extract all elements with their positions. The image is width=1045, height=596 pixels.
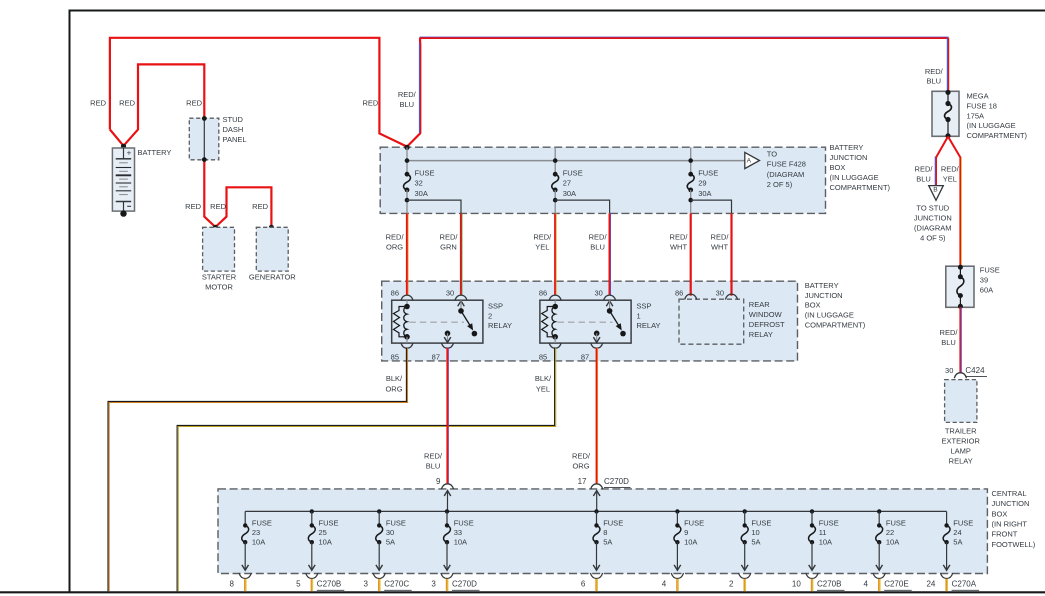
svg-text:FUSE 18: FUSE 18 [967,102,997,111]
relay SSP 1 box [540,300,631,343]
node fuse 27 output branch [553,198,558,203]
node mega fuse input [945,90,950,95]
CJB fuse 33 column [445,509,449,513]
svg-text:85: 85 [391,352,399,361]
svg-text:BLK/: BLK/ [386,374,403,383]
svg-text:30: 30 [446,288,454,297]
svg-text:JUNCTION: JUNCTION [830,153,868,162]
CJB fuse 22 column [877,509,881,513]
relay pin 86 connector arc [401,295,413,301]
wire RED/GRN to SSP2 relay pin 30 [460,213,462,295]
defrost relay pin 86 arc [685,294,697,300]
wire RED battery right branch to stud dash panel [124,64,205,145]
node battery junction box feed [404,145,409,150]
svg-text:ORG: ORG [386,242,403,251]
CJB output pin 8 connector arc [239,573,251,579]
CJB entry pin 9 arrow [444,491,451,496]
svg-text:FUSE: FUSE [319,518,339,527]
svg-text:22: 22 [886,528,894,537]
fuse 27 feed line [554,147,556,174]
svg-text:YEL: YEL [536,384,550,393]
node stud top [202,116,207,121]
CJB entry pin 9 arc [441,484,453,490]
stud dash panel box [189,118,219,160]
svg-text:3: 3 [431,580,436,589]
relay pin 85 connector arc [549,343,561,349]
svg-text:RELAY: RELAY [749,330,773,339]
svg-text:BLU: BLU [941,338,956,347]
wire RED/YEL fuse27 to SSP1 relay pin 86 [554,213,556,295]
relay switch stationary contact [620,331,626,337]
svg-text:10A: 10A [252,538,265,547]
svg-text:30: 30 [594,288,602,297]
svg-text:RED/: RED/ [915,164,934,173]
fuse 25 output line and exit arrow [311,542,313,569]
triangle connector A to fuse F428 [745,152,760,168]
svg-text:C270C: C270C [384,580,409,589]
svg-text:4: 4 [864,580,869,589]
CJB fuse 8 column [594,509,598,513]
svg-text:RED/: RED/ [940,328,959,337]
wire RED battery V left diagonal [110,130,124,146]
node bus junction fuse 29 [688,158,693,163]
svg-text:FUSE F428: FUSE F428 [767,160,806,169]
svg-text:ORG: ORG [385,384,402,393]
svg-text:RED: RED [186,98,202,107]
fuse 29 30A [687,174,694,190]
svg-text:23: 23 [252,528,260,537]
svg-text:FUSE: FUSE [980,266,1000,275]
svg-text:RED/: RED/ [386,232,405,241]
wire RED/YEL mega fuse to fuse 39 [948,137,960,266]
svg-text:BATTERY: BATTERY [138,148,172,157]
svg-text:TRAILER: TRAILER [945,427,977,436]
branch wire to pin 30 column x=609.6 [555,200,609,213]
relay switch common contact [458,308,464,314]
fuse 23 10A [242,525,249,542]
svg-text:8: 8 [230,580,235,589]
svg-text:FUSE: FUSE [819,518,839,527]
svg-text:4: 4 [662,580,667,589]
CJB output pin 2 connector arc [739,573,751,579]
svg-text:87: 87 [581,352,589,361]
wire output pin 8 [244,579,246,591]
svg-text:3: 3 [364,580,369,589]
battery negative terminal [116,201,132,203]
svg-text:C270E: C270E [884,580,908,589]
svg-text:27: 27 [563,179,571,188]
wire output pin 10 [811,579,813,591]
svg-text:RED/: RED/ [572,451,591,460]
relay pin 86 internal line [554,300,556,306]
svg-text:SSP: SSP [488,301,503,310]
fuse 30 output line and exit arrow [378,542,380,569]
wire RED/BLU junction box V to mega fuse 18 [407,38,420,147]
CJB fuse 30 column [377,509,381,513]
svg-text:24: 24 [926,580,935,589]
svg-text:RED/: RED/ [589,232,608,241]
svg-text:CENTRAL: CENTRAL [992,489,1027,498]
fuse 24 5A [943,525,950,542]
svg-text:GRN: GRN [440,242,457,251]
stud dash panel stud line [203,118,205,160]
svg-text:RELAY: RELAY [949,457,973,466]
relay mechanical link line [558,321,613,323]
svg-text:RED/: RED/ [424,451,443,460]
svg-text:ORG: ORG [572,462,589,471]
svg-text:BLU: BLU [927,77,942,86]
svg-text:10A: 10A [319,538,332,547]
svg-text:BLU: BLU [400,100,415,109]
svg-text:C270B: C270B [317,580,341,589]
CJB fuse 23 column [244,511,246,525]
wire RED battery to top rail [110,38,407,147]
svg-text:GENERATOR: GENERATOR [249,273,296,282]
svg-text:BLU: BLU [590,242,605,251]
svg-text:COMPARTMENT): COMPARTMENT) [967,131,1028,140]
svg-text:30A: 30A [563,189,576,198]
battery junction box 2 (relays) outline [382,281,798,361]
svg-text:60A: 60A [980,286,993,295]
svg-text:5A: 5A [953,538,962,547]
node stud bottom [202,157,207,162]
CJB output pin 6 connector arc [590,573,602,579]
relay switch blade [610,311,619,326]
fuse 24 output line and exit arrow [946,542,948,569]
svg-text:WINDOW: WINDOW [749,310,783,319]
fuse 9 output line and exit arrow [676,542,678,569]
relay pin 87 connector arc [441,343,453,349]
svg-text:30A: 30A [415,189,428,198]
wire output pin 6 [595,579,597,591]
svg-text:RELAY: RELAY [637,321,661,330]
relay pin 87 exit arrow [596,333,598,342]
fuse 11 10A [809,525,816,542]
svg-text:11: 11 [819,528,827,537]
svg-text:9: 9 [684,528,688,537]
relay pin 86 connector arc [549,295,561,301]
svg-text:RED: RED [185,202,201,211]
svg-text:10: 10 [792,580,801,589]
wire RED/WHT to defrost relay pin 30 [730,213,732,295]
svg-text:BLU: BLU [426,462,441,471]
CJB fuse 9 column [675,509,679,513]
svg-text:STUD: STUD [223,115,244,124]
svg-text:JUNCTION: JUNCTION [992,499,1030,508]
wire RED/ORG fuse32 to SSP2 relay pin 86 [406,213,408,295]
svg-text:10: 10 [751,528,759,537]
svg-text:5A: 5A [386,538,395,547]
svg-text:TO STUD: TO STUD [916,203,949,212]
CJB output pin 4 connector arc [873,573,885,579]
svg-text:BATTERY: BATTERY [805,281,839,290]
svg-text:WHT: WHT [670,242,687,251]
fuse 8 output line and exit arrow [596,542,598,569]
svg-text:BOX: BOX [992,509,1008,518]
svg-text:2 OF 5): 2 OF 5) [767,180,793,189]
svg-text:RED/: RED/ [398,90,417,99]
svg-text:COMPARTMENT): COMPARTMENT) [830,183,891,192]
generator box [256,227,288,271]
svg-text:FUSE: FUSE [415,168,435,177]
fuse 10 output line and exit arrow [744,542,746,569]
CJB output pin 3 connector arc [373,573,385,579]
svg-text:YEL: YEL [535,242,549,251]
svg-text:10A: 10A [886,538,899,547]
svg-text:C270D: C270D [604,477,629,486]
CJB fuse 25 column [310,509,314,513]
svg-text:RED/: RED/ [440,232,459,241]
connector C424 arc [954,373,966,379]
svg-text:DEFROST: DEFROST [749,320,785,329]
wire output pin 3 [446,579,448,591]
fuse 39 element [959,267,961,277]
svg-text:C270B: C270B [817,580,841,589]
svg-text:RED/: RED/ [711,232,730,241]
relay coil top contact [404,304,410,310]
svg-text:STARTER: STARTER [202,273,237,282]
wire BLK/YEL SSP1 pin 85 to left [177,348,554,591]
svg-text:87: 87 [432,352,440,361]
svg-text:EXTERIOR: EXTERIOR [942,437,981,446]
wire RED/BLU to SSP1 relay pin 30 [608,213,610,295]
relay pin 87 connector arc [591,343,603,349]
svg-text:C270D: C270D [452,580,477,589]
svg-text:RED: RED [119,98,135,107]
svg-text:9: 9 [436,477,441,486]
svg-text:85: 85 [539,352,547,361]
fuse 32 feed line [406,147,408,174]
svg-text:RED: RED [362,98,378,107]
svg-text:RED: RED [90,98,106,107]
svg-text:FUSE: FUSE [454,518,474,527]
branch wire to pin 30 column x=731.5 [691,200,732,213]
frame left border [69,11,71,593]
svg-text:17: 17 [578,477,587,486]
wire output pin 24 [945,579,947,591]
svg-text:86: 86 [391,288,399,297]
svg-text:RED/: RED/ [941,164,960,173]
svg-text:30: 30 [386,528,394,537]
node bus junction fuse 32 [405,158,410,163]
relay mechanical link line [409,321,464,323]
svg-text:YEL: YEL [943,174,957,183]
fuse 11 output line and exit arrow [811,542,813,569]
CJB output pin 24 connector arc [941,573,953,579]
svg-text:2: 2 [729,580,734,589]
fuse 32 output line [406,190,408,214]
CJB fuse 24 column [946,511,948,525]
fuse 25 10A [308,525,315,542]
svg-text:RED: RED [252,202,268,211]
svg-text:86: 86 [675,288,683,297]
defrost relay pin 30 arc [725,294,737,300]
svg-text:30: 30 [945,366,953,375]
svg-text:8: 8 [603,528,607,537]
node fuse 29 output branch [688,198,693,203]
battery cell plates [119,162,128,164]
svg-text:JUNCTION: JUNCTION [914,213,952,222]
svg-text:(IN RIGHT: (IN RIGHT [992,520,1028,529]
fuse 29 feed line [690,147,692,174]
fuse 27 output line [554,190,556,214]
relay pin 30 entry arrow [606,301,613,306]
relay pin 87 contact [594,331,600,337]
svg-text:BATTERY: BATTERY [830,143,864,152]
wire RED/BLU mega fuse to triangle B [936,137,948,186]
CJB output pin 10 connector arc [806,573,818,579]
svg-text:29: 29 [698,179,706,188]
svg-text:COMPARTMENT): COMPARTMENT) [805,321,866,330]
svg-text:BLU: BLU [916,174,931,183]
svg-text:RED/: RED/ [925,67,944,76]
relay pin 87 contact [445,331,451,337]
svg-text:5: 5 [296,580,301,589]
fuse 29 output line [690,190,692,214]
svg-text:39: 39 [980,276,988,285]
svg-text:+: + [127,149,132,158]
svg-text:FUSE: FUSE [252,518,272,527]
svg-text:FUSE: FUSE [698,168,718,177]
wire RED/BLU fuse 39 to trailer relay C424 [959,307,961,373]
relay coil bottom contact [552,334,558,340]
starter motor box [203,227,235,271]
svg-text:24: 24 [953,528,961,537]
CJB output pin 5 connector arc [306,573,318,579]
svg-text:FUSE: FUSE [886,518,906,527]
fuse 32 30A [404,174,411,190]
frame bottom border [0,591,1045,593]
triangle connector B to stud junction [929,186,944,201]
svg-text:FUSE: FUSE [953,518,973,527]
frame top border [69,10,1045,12]
node bus junction fuse 27 [553,158,558,163]
fuse 27 30A [552,174,559,190]
svg-text:RED/: RED/ [533,232,552,241]
svg-text:(IN LUGGAGE: (IN LUGGAGE [967,121,1016,130]
wire RED/ORG SSP1 pin 87 to CJB pin 17 [596,348,598,485]
wire RED/BLU SSP2 pin 87 to CJB pin 9 [446,348,448,485]
rear window defrost relay box [679,299,744,344]
relay switch common contact [607,308,613,314]
fuse 10 5A [741,525,748,542]
battery B1 body [112,148,134,211]
fuse 8 5A [593,525,600,542]
svg-text:175A: 175A [967,111,985,120]
node fuse 39 input [958,265,963,270]
svg-text:JUNCTION: JUNCTION [805,291,843,300]
svg-text:FOOTWELL): FOOTWELL) [992,540,1036,549]
fuse 23 output line and exit arrow [244,542,246,569]
svg-text:(DIAGRAM: (DIAGRAM [767,170,805,179]
svg-text:RED: RED [210,202,226,211]
node battery negative [120,210,126,216]
relay pin 85 internal line [406,337,408,343]
svg-text:(DIAGRAM: (DIAGRAM [914,223,952,232]
node fuse 39 output [958,304,963,309]
wire RED/BLU top rail to mega fuse [420,36,949,38]
svg-text:FUSE: FUSE [603,518,623,527]
svg-text:(IN LUGGAGE: (IN LUGGAGE [830,173,879,182]
node fuse 32 output branch [405,198,410,203]
svg-text:10A: 10A [684,538,697,547]
svg-text:1: 1 [637,311,641,320]
svg-text:(IN LUGGAGE: (IN LUGGAGE [805,311,854,320]
wire RED starter motor to generator link [215,187,271,227]
relay switch stationary contact [472,331,478,337]
CJB bus bar [245,510,946,512]
node battery positive [121,144,126,149]
svg-text:FUSE: FUSE [563,168,583,177]
svg-text:FUSE: FUSE [386,518,406,527]
battery junction box 1 (fuses) outline [380,147,825,213]
svg-text:32: 32 [415,179,423,188]
svg-text:FRONT: FRONT [992,530,1018,539]
CJB fuse 10 column [743,509,747,513]
svg-text:30A: 30A [698,189,711,198]
wire output pin 5 [310,579,312,591]
svg-text:10A: 10A [454,538,467,547]
trailer exterior lamp relay box [945,380,977,423]
svg-text:DASH: DASH [223,125,244,134]
svg-text:MOTOR: MOTOR [205,283,233,292]
central junction box outline [218,489,987,574]
node mega fuse output [945,133,950,138]
relay pin 86 internal line [406,300,408,306]
relay coil top contact [552,304,558,310]
svg-text:FUSE: FUSE [684,518,704,527]
svg-text:TO: TO [767,149,777,158]
svg-text:4 OF 5): 4 OF 5) [920,233,946,242]
svg-text:B: B [933,186,938,193]
relay pin 30 connector arc [604,295,616,301]
CJB fuse 11 column [810,509,814,513]
battery positive terminal [123,148,125,159]
svg-text:RED/: RED/ [670,232,689,241]
svg-text:6: 6 [581,580,586,589]
svg-text:PANEL: PANEL [223,135,247,144]
relay coil bottom contact [404,334,410,340]
fuse 33 output line and exit arrow [446,542,448,569]
svg-text:WHT: WHT [711,242,728,251]
fuse 22 output line and exit arrow [878,542,880,569]
CJB entry pin 17 arrow [593,491,600,496]
svg-text:C424: C424 [965,366,985,375]
mega fuse 18 box [932,91,959,136]
svg-text:10A: 10A [819,538,832,547]
svg-text:33: 33 [454,528,462,537]
node starter motor terminal [213,225,218,230]
svg-text:BOX: BOX [830,163,846,172]
svg-text:25: 25 [319,528,327,537]
svg-text:RELAY: RELAY [488,321,512,330]
fuse 22 10A [876,525,883,542]
wire RED/BLU mega fuse drop [946,38,948,91]
svg-text:MEGA: MEGA [967,92,989,101]
relay switch blade [461,311,470,326]
svg-text:5A: 5A [603,538,612,547]
wire BLK/ORG SSP2 pin 85 to left [108,348,406,591]
svg-text:A: A [747,157,752,164]
svg-text:BLK/: BLK/ [535,374,552,383]
svg-text:BOX: BOX [805,301,821,310]
svg-text:30: 30 [716,288,724,297]
wire output pin 4 [676,579,678,591]
CJB output pin 4 connector arc [671,573,683,579]
relay SSP 2 box [392,300,483,343]
svg-text:SSP: SSP [637,301,652,310]
relay pin 87 exit arrow [447,333,449,342]
